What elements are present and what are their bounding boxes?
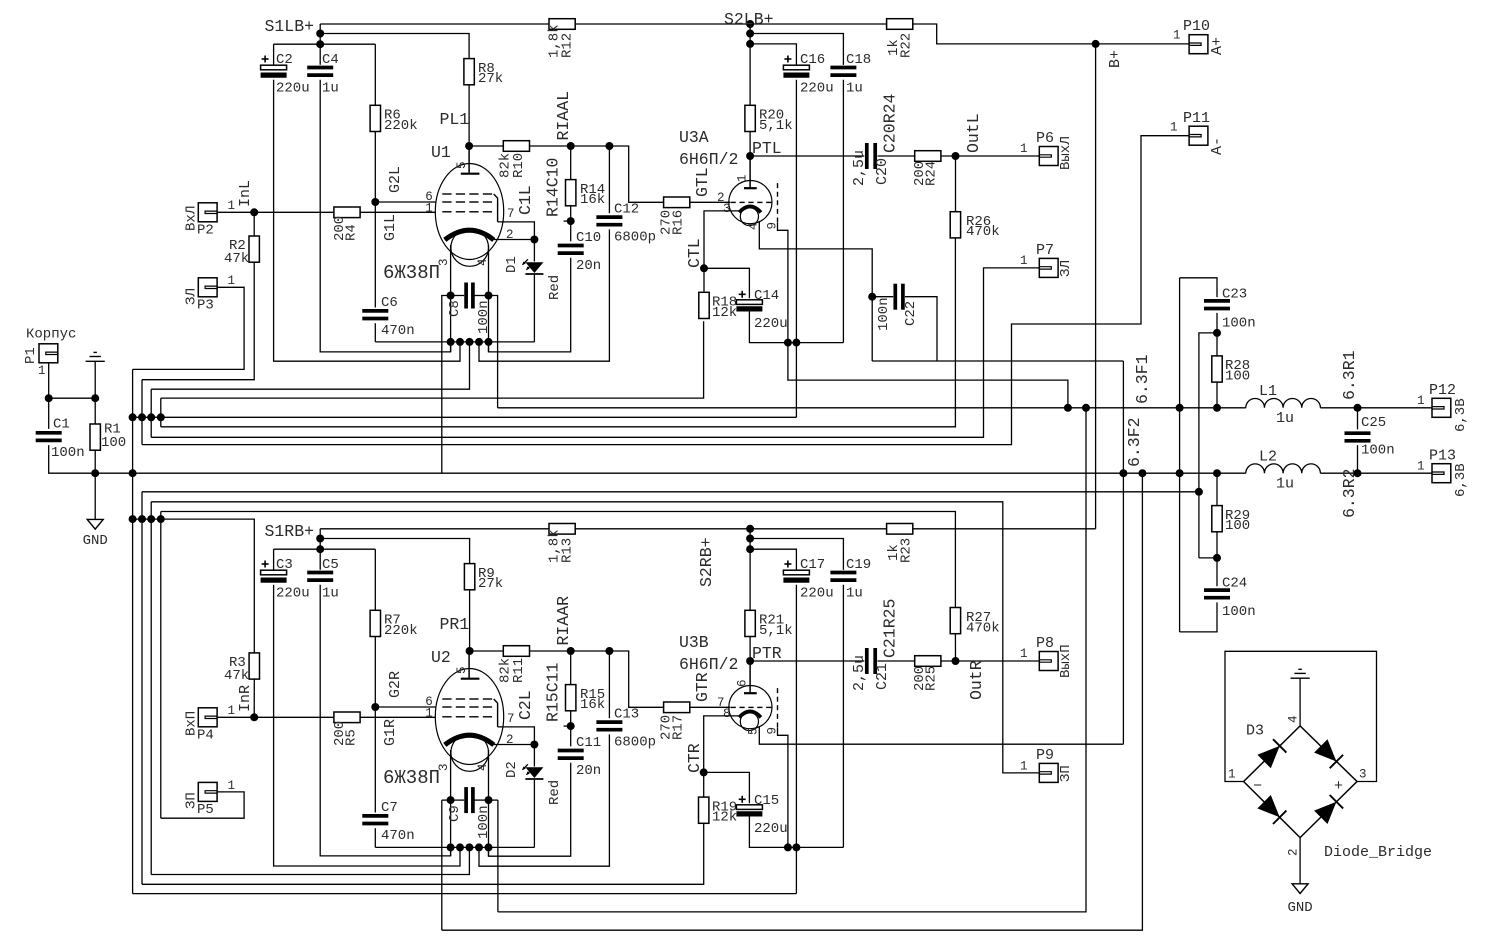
- junction cathode C1L: [530, 236, 538, 244]
- svg-text:GND: GND: [83, 533, 108, 549]
- resistor R11 82k: [503, 646, 529, 657]
- grid of tube U3A 6N6P/2 triode: [731, 201, 736, 203]
- capacitor C2 220u polarized: [261, 65, 287, 70]
- junctions RIAAR node: [567, 647, 575, 655]
- resistor R5 200: [334, 712, 360, 723]
- svg-text:100n: 100n: [1222, 316, 1256, 332]
- wire C23 to R28: [1216, 313, 1218, 356]
- wire S2RB to C17: [750, 549, 796, 570]
- svg-text:P11: P11: [1183, 110, 1210, 127]
- wire earth to bridge pin 4: [1299, 678, 1301, 726]
- suppressor-to-cathode link of tube U1 6Zh38P pentode: [494, 194, 498, 222]
- svg-text:ЗП: ЗП: [1058, 765, 1074, 782]
- connector P2 input left: [198, 203, 217, 222]
- ground symbol GND: [87, 519, 103, 529]
- svg-text:C3: C3: [276, 557, 293, 573]
- svg-text:B+: B+: [1107, 50, 1124, 68]
- wire CTR to C15: [704, 772, 750, 803]
- svg-text:100n: 100n: [876, 297, 892, 331]
- svg-text:D1: D1: [504, 256, 520, 273]
- connector P5 ground lug right: [198, 782, 217, 801]
- svg-text:C20R24: C20R24: [881, 93, 900, 153]
- svg-text:GTL: GTL: [693, 167, 712, 197]
- svg-text:2,5u: 2,5u: [851, 150, 868, 186]
- wire R2 to ground bus V2: [142, 262, 254, 380]
- resistor R2 47k: [249, 236, 259, 262]
- svg-text:100n: 100n: [1222, 604, 1256, 620]
- svg-text:C4: C4: [322, 52, 339, 68]
- svg-text:Корпус: Корпус: [26, 327, 76, 343]
- shield pin 9 dashed U3B: [777, 688, 779, 728]
- wire bus V3 lower: [150, 502, 152, 875]
- connector P4 input right: [198, 708, 217, 727]
- svg-text:1: 1: [1020, 647, 1028, 661]
- wire R25 to P8: [941, 660, 1039, 662]
- wire R4 to U1 pin 1: [360, 211, 436, 213]
- heater of tube U1 6Zh38P pentode: [451, 229, 489, 267]
- wire C7 bottom: [374, 828, 376, 847]
- wire to C3 plus: [273, 549, 275, 570]
- wire R15 to C11: [570, 711, 572, 747]
- wire S2RB node to R21: [749, 529, 751, 611]
- svg-text:100: 100: [101, 435, 126, 451]
- svg-text:RIAAR: RIAAR: [554, 596, 573, 646]
- capacitor C23 100n: [1204, 299, 1230, 303]
- resistor R28 100: [1212, 356, 1222, 382]
- junctions C9 plates: [447, 796, 455, 804]
- wire S1RB node vertical: [319, 529, 321, 570]
- svg-text:1: 1: [228, 779, 236, 793]
- svg-text:3: 3: [723, 202, 731, 216]
- resistor R21 5,1k: [745, 610, 755, 636]
- svg-text:R12: R12: [560, 33, 576, 58]
- svg-text:6: 6: [736, 679, 750, 687]
- svg-text:S2RB+: S2RB+: [697, 537, 716, 587]
- wire S1LB node vertical: [319, 24, 321, 65]
- svg-text:6Ж38П: 6Ж38П: [383, 767, 440, 789]
- junction G2L: [371, 198, 379, 206]
- svg-text:P3: P3: [197, 298, 214, 314]
- wire to C8 left plate: [451, 295, 465, 297]
- svg-text:R22: R22: [899, 33, 915, 58]
- wire bus V2 lower: [141, 492, 143, 885]
- svg-text:220u: 220u: [754, 316, 788, 332]
- wire to C2 plus: [273, 44, 275, 65]
- resistor R17 270: [664, 702, 690, 713]
- junction C22 left: [868, 293, 876, 301]
- capacitor C5 1u: [307, 571, 333, 575]
- svg-text:16k: 16k: [580, 192, 605, 208]
- svg-text:G2L: G2L: [387, 166, 404, 193]
- connector P3 ground lug left: [198, 278, 217, 297]
- wire U3A cathode to R18: [704, 211, 739, 292]
- inductor L1 1u: [1246, 398, 1321, 407]
- wire bus V1 wrap to C17 ground: [133, 893, 797, 895]
- wire U2 pin 3 down: [450, 750, 452, 856]
- connector P1 chassis: [39, 344, 58, 363]
- wire C5 bottom to ground dot: [320, 585, 450, 856]
- svg-text:C22: C22: [903, 301, 919, 326]
- svg-text:R17: R17: [671, 715, 687, 740]
- wire 6.3F1 line to L1: [498, 407, 1246, 409]
- wire P11 to bus V2: [142, 136, 1189, 445]
- svg-text:6Н6П/2: 6Н6П/2: [679, 655, 738, 674]
- wire bus V1 vertical: [132, 369, 134, 893]
- diode D3 edge 1-4: [1257, 746, 1279, 768]
- wire to C8 right plate: [475, 295, 489, 297]
- svg-text:PTL: PTL: [752, 139, 782, 158]
- wire R8 to PL1 node: [468, 85, 470, 146]
- svg-text:C8: C8: [447, 300, 463, 317]
- svg-text:20n: 20n: [576, 763, 601, 779]
- resistor R29 100: [1212, 506, 1222, 532]
- svg-text:47k: 47k: [224, 668, 249, 684]
- wire R22 to B+ node: [913, 24, 1096, 44]
- svg-text:3: 3: [437, 763, 451, 771]
- junction InL: [250, 208, 258, 216]
- wire bus V4 lower: [160, 512, 162, 819]
- wire U3B cathode to R19: [704, 716, 740, 797]
- svg-text:C1L: C1L: [516, 185, 535, 215]
- svg-text:100: 100: [1225, 368, 1250, 384]
- wire B+ rail S1LB to R12: [320, 23, 549, 25]
- wire R11 to R17: [530, 651, 664, 707]
- svg-text:100n: 100n: [51, 445, 85, 461]
- resistor R23 1k: [887, 524, 913, 535]
- svg-text:A-: A-: [1209, 137, 1226, 155]
- wire R3 to InR: [253, 679, 255, 717]
- svg-text:7: 7: [507, 207, 515, 221]
- heater of tube U3A 6N6P/2 triode: [740, 207, 758, 225]
- LED D2 Red: [525, 767, 543, 778]
- svg-text:D3: D3: [1246, 723, 1264, 740]
- svg-text:ВыхП: ВыхП: [1058, 644, 1074, 678]
- wire U1 pin 2: [494, 239, 534, 241]
- resistor R20 5,1k: [745, 105, 755, 131]
- wire cathode to D1: [533, 240, 535, 262]
- junction 6.3F2 line: [1119, 469, 1127, 477]
- svg-text:CTR: CTR: [685, 743, 704, 773]
- wire R17 to U3B grid pin 7: [690, 706, 730, 708]
- resistor R6 220k: [370, 105, 380, 131]
- svg-text:8: 8: [723, 707, 731, 721]
- svg-text:C16: C16: [800, 52, 825, 68]
- svg-text:7: 7: [507, 712, 515, 726]
- svg-text:P1: P1: [23, 347, 39, 364]
- svg-text:R5: R5: [344, 729, 360, 746]
- wire C6 bottom: [374, 323, 376, 342]
- wire R18 to bus V4: [161, 321, 704, 398]
- wire RIAAR to R15: [570, 651, 572, 685]
- LED D1 Red: [525, 262, 543, 273]
- cathode of tube U1 6Zh38P pentode: [445, 230, 494, 240]
- svg-text:C15: C15: [754, 793, 779, 809]
- wire C13 bottom to ground dot: [479, 734, 609, 866]
- capacitor C14 220u polarized: [736, 300, 762, 305]
- svg-text:+: +: [1334, 778, 1343, 795]
- grids of tube U1 6Zh38P pentode: [442, 193, 451, 195]
- capacitor C7 470n: [362, 814, 388, 818]
- svg-text:6.3F2: 6.3F2: [1125, 417, 1144, 467]
- svg-text:27k: 27k: [478, 576, 503, 592]
- junction analog ground: [91, 469, 99, 477]
- svg-text:6Н6П/2: 6Н6П/2: [679, 150, 738, 169]
- cathode of tube U3A 6N6P/2 triode: [739, 206, 761, 212]
- wire R1 to GND: [94, 450, 96, 519]
- svg-text:GTR: GTR: [693, 672, 712, 702]
- svg-text:3: 3: [1359, 768, 1367, 782]
- junction on V1: [129, 469, 137, 477]
- svg-text:100n: 100n: [1361, 443, 1395, 459]
- wire V3 to bottom dot3 stub: [151, 850, 469, 874]
- junction ground return: [1195, 488, 1203, 496]
- svg-text:1: 1: [1173, 29, 1181, 43]
- wire C22 right: [905, 297, 937, 361]
- svg-text:6800p: 6800p: [614, 230, 656, 246]
- capacitor C22 100n: [893, 284, 897, 310]
- svg-text:1: 1: [228, 274, 236, 288]
- capacitor C11 20n: [558, 749, 584, 753]
- junctions at S1RB node: [316, 535, 324, 543]
- svg-text:27k: 27k: [478, 71, 503, 87]
- svg-text:4: 4: [747, 222, 761, 230]
- wire S1RB to R9: [320, 539, 469, 564]
- svg-text:20n: 20n: [576, 258, 601, 274]
- wire C18 bottom: [842, 80, 844, 343]
- svg-text:C5: C5: [322, 557, 339, 573]
- wire InR to R5: [254, 716, 334, 718]
- svg-text:C1: C1: [53, 417, 70, 433]
- junction pin9 ground bottom: [784, 843, 792, 851]
- connector P6 output left: [1039, 147, 1058, 166]
- plate (anode) of tube U2 6Zh38P pentode: [461, 678, 480, 680]
- wire R27 to OutR: [954, 634, 956, 661]
- wire to R6: [374, 44, 376, 105]
- svg-text:C25: C25: [1361, 415, 1386, 431]
- svg-text:1: 1: [1417, 460, 1425, 474]
- svg-text:47k: 47k: [224, 251, 249, 267]
- capacitor C20 2,5u: [865, 143, 869, 169]
- svg-text:C9: C9: [447, 805, 463, 822]
- svg-text:U2: U2: [431, 648, 451, 667]
- svg-text:1: 1: [228, 199, 236, 213]
- wire D1 to ground row: [533, 275, 535, 342]
- wire node to R1: [94, 398, 96, 424]
- svg-text:P4: P4: [197, 728, 214, 744]
- svg-text:1: 1: [425, 201, 433, 215]
- svg-text:C20: C20: [874, 158, 891, 185]
- capacitor C10 20n: [558, 244, 584, 248]
- svg-text:P6: P6: [1036, 130, 1054, 147]
- wire G2R to U2 pin 6: [375, 706, 436, 708]
- wire stub net label R14C10: [564, 220, 571, 222]
- wire ground row under U1: [375, 341, 534, 343]
- svg-text:Red: Red: [547, 275, 563, 300]
- svg-text:R4: R4: [344, 224, 360, 241]
- wire 6.3F2 down to bottom heater row: [442, 473, 1143, 930]
- svg-text:1: 1: [425, 706, 433, 720]
- svg-text:GND: GND: [1287, 900, 1312, 916]
- svg-text:5: 5: [455, 666, 469, 674]
- svg-text:C11: C11: [576, 735, 601, 751]
- junction OutL: [952, 152, 960, 160]
- svg-text:−: −: [1253, 778, 1262, 795]
- capacitor C9 100n: [464, 787, 468, 813]
- wire C21 to R25: [878, 660, 915, 662]
- svg-text:12k: 12k: [712, 305, 737, 321]
- capacitor C18 1u: [830, 66, 856, 70]
- resistor R26 470k: [950, 212, 960, 238]
- wire P3 to ground bus V1: [133, 287, 245, 369]
- wire R23 to B+ vertical: [913, 528, 1096, 530]
- capacitor C13 6800p: [596, 720, 622, 724]
- capacitor C25 100n: [1345, 431, 1371, 435]
- svg-text:C23: C23: [1222, 287, 1247, 303]
- svg-text:P7: P7: [1036, 242, 1054, 259]
- svg-text:PR1: PR1: [440, 615, 470, 634]
- resistor R12 1,8k: [549, 19, 575, 30]
- wire ground row under U2: [375, 846, 534, 848]
- svg-text:D2: D2: [504, 761, 520, 778]
- svg-text:220k: 220k: [384, 623, 418, 639]
- svg-text:C21R25: C21R25: [881, 599, 900, 658]
- svg-text:6.3F1: 6.3F1: [1133, 354, 1152, 404]
- junction PTL: [746, 152, 754, 160]
- junction C25 top: [1354, 404, 1362, 412]
- svg-text:1: 1: [1417, 394, 1425, 408]
- wire R20 to PTL: [749, 132, 751, 157]
- wire R28 to 6.3F1 line: [1216, 382, 1218, 408]
- resistor R9 27k: [464, 564, 474, 590]
- wire to C23: [1180, 278, 1217, 297]
- svg-text:12k: 12k: [712, 810, 737, 826]
- earth symbol diode bridge: [1298, 668, 1301, 670]
- capacitor C15 220u polarized: [736, 805, 762, 810]
- wire C25 top: [1357, 408, 1359, 430]
- resistor R1 100: [90, 424, 100, 450]
- svg-text:G2R: G2R: [387, 671, 404, 698]
- wire R28 node to ground return: [1199, 333, 1217, 558]
- wire R10 to R16: [530, 146, 664, 202]
- junction G2R: [371, 703, 379, 711]
- wire R21 to PTR: [749, 637, 751, 662]
- wire R7 to C7 through G2R node: [374, 637, 376, 813]
- svg-text:R16: R16: [671, 210, 687, 235]
- svg-text:P12: P12: [1429, 382, 1456, 399]
- svg-text:1u: 1u: [1276, 476, 1294, 493]
- wire bridge pin 2 to GND: [1299, 838, 1301, 884]
- wire P7 to bus V3: [151, 268, 1039, 437]
- capacitor C16 220u polarized: [783, 65, 809, 70]
- svg-text:R14C10: R14C10: [544, 158, 563, 217]
- wire R19 to bus V2 wrap: [142, 823, 704, 884]
- resistor R15 16k: [566, 685, 576, 711]
- wire C2 C4 R6 tops: [274, 43, 376, 45]
- wire to C1: [48, 398, 50, 429]
- wire U1 pin 3 down: [450, 245, 452, 352]
- wire OutL to R26: [955, 156, 957, 212]
- resistor R16 270: [664, 197, 690, 208]
- svg-text:6Ж38П: 6Ж38П: [383, 262, 440, 284]
- grids of tube U2 6Zh38P pentode: [442, 698, 451, 700]
- junction InR: [250, 713, 258, 721]
- wire R5 to U2 pin 1: [360, 716, 436, 718]
- wire heater ground return: [142, 491, 1198, 493]
- wire RIAAL to R14: [570, 146, 572, 180]
- svg-text:470k: 470k: [966, 224, 1000, 240]
- wire C11 bottom to ground dot: [489, 763, 571, 856]
- svg-text:220k: 220k: [384, 118, 418, 134]
- svg-text:L1: L1: [1259, 383, 1277, 400]
- svg-text:InL: InL: [237, 180, 254, 207]
- svg-text:C7: C7: [381, 800, 398, 816]
- wire ground bus row 1: [133, 416, 797, 418]
- wire S2LB node to R20: [749, 24, 751, 105]
- wire U3B pin 9 down: [778, 728, 788, 848]
- svg-text:C17: C17: [800, 557, 825, 573]
- plate of tube U3A 6N6P/2 triode: [744, 187, 757, 189]
- svg-text:6,3B: 6,3B: [1453, 463, 1469, 497]
- svg-text:R13: R13: [560, 538, 576, 563]
- tube U2 6Zh38P pentode: [435, 669, 503, 765]
- resistor R27 470k: [950, 608, 960, 634]
- grid of tube U3B 6N6P/2 triode: [731, 706, 736, 708]
- wire center tap vertical: [1179, 278, 1181, 632]
- resistor R14 16k: [566, 180, 576, 206]
- junction R28 top: [1213, 329, 1221, 337]
- svg-text:220u: 220u: [276, 586, 310, 602]
- junction center tap on 6.3F2: [1176, 469, 1184, 477]
- capacitor C3 220u polarized: [261, 570, 287, 575]
- resistor R22 1k: [887, 19, 913, 30]
- tube U1 6Zh38P pentode: [435, 164, 503, 260]
- wire R14 to C10: [570, 206, 572, 242]
- svg-text:4: 4: [1287, 715, 1301, 723]
- junctions bus row 2: [129, 515, 137, 523]
- junctions 6.3F1 line: [1064, 404, 1072, 412]
- capacitor C4 1u: [307, 66, 333, 70]
- wire chassis node: [49, 397, 95, 399]
- svg-text:470k: 470k: [966, 620, 1000, 636]
- capacitor C12 6800p: [596, 215, 622, 219]
- wire to R7: [374, 549, 376, 610]
- wire PR1 to R11: [470, 650, 504, 652]
- resistor R10 82k: [503, 141, 529, 152]
- capacitor C8 100n: [464, 283, 468, 309]
- wire R26 to bus V4: [161, 238, 956, 427]
- suppressor-to-cathode link of tube U2 6Zh38P pentode: [494, 699, 498, 727]
- wire G2L to U1 pin 6: [375, 201, 436, 203]
- wire L1 to P12: [1320, 407, 1432, 409]
- junction C17 ground: [792, 843, 800, 851]
- tube U3A 6N6P/2 triode: [729, 181, 772, 224]
- connector P8 output right: [1039, 652, 1058, 671]
- svg-text:1u: 1u: [846, 81, 863, 97]
- wire heater return to 6.3F2: [872, 360, 1123, 362]
- wire PL1 to R10: [469, 145, 503, 147]
- wire C2 bottom to ground dot: [274, 80, 460, 361]
- wire C8 left to ground line: [442, 296, 451, 474]
- wire PTR to C21: [750, 660, 864, 662]
- svg-text:U3A: U3A: [679, 128, 709, 147]
- capacitor C17 220u polarized: [783, 570, 809, 575]
- svg-text:220u: 220u: [754, 821, 788, 837]
- svg-text:S1LB+: S1LB+: [265, 17, 315, 36]
- wire InL to R4: [254, 211, 334, 213]
- wire C9 left to heater row: [442, 799, 451, 801]
- wire C19 bottom: [842, 585, 844, 848]
- wire C3 C5 R7 tops: [274, 548, 376, 550]
